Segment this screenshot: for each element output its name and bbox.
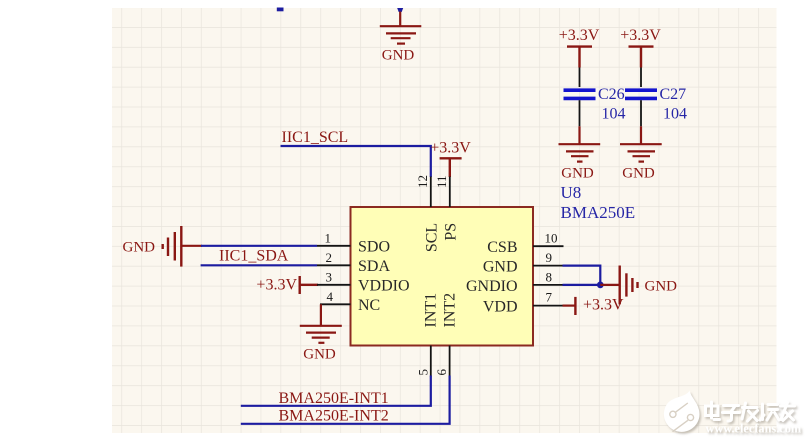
- svg-text:9: 9: [546, 250, 553, 265]
- svg-text:3: 3: [326, 270, 333, 285]
- op IC U8 body: [351, 207, 534, 346]
- ground GND (below C26): [559, 144, 601, 161]
- svg-text:C27: C27: [660, 86, 687, 103]
- wire pin9 to junction: [563, 266, 601, 285]
- watermark chinese text: [706, 402, 795, 421]
- svg-text:2: 2: [326, 250, 333, 265]
- svg-text:GND: GND: [645, 279, 678, 295]
- pin 4 (NC): [320, 303, 351, 305]
- svg-text:104: 104: [602, 106, 626, 123]
- svg-text:VDDIO: VDDIO: [358, 278, 410, 295]
- svg-text:GND: GND: [303, 347, 336, 363]
- svg-text:10: 10: [545, 231, 558, 246]
- svg-text:+3.3V: +3.3V: [430, 140, 471, 157]
- pin 7 (VDD): [533, 305, 564, 307]
- svg-text:+3.3V: +3.3V: [559, 27, 600, 44]
- svg-text:INT1: INT1: [423, 293, 440, 328]
- svg-text:BMA250E-INT2: BMA250E-INT2: [279, 408, 389, 425]
- schematic sheet background: [112, 8, 777, 433]
- svg-text:NC: NC: [358, 297, 380, 314]
- svg-text:7: 7: [546, 290, 553, 305]
- svg-text:CSB: CSB: [487, 239, 517, 256]
- pin 11 (PS): [449, 177, 451, 208]
- svg-text:GND: GND: [382, 48, 415, 64]
- svg-text:GND: GND: [561, 166, 594, 182]
- svg-text:SDA: SDA: [358, 258, 390, 275]
- svg-text:C26: C26: [598, 86, 625, 103]
- wire (blue stem into top GND): [397, 8, 403, 12]
- pin 6 (INT2): [449, 346, 451, 377]
- pin 10 (CSB): [533, 245, 564, 247]
- svg-text:IIC1_SDA: IIC1_SDA: [219, 248, 289, 265]
- pin 9 (GND): [533, 265, 564, 267]
- wire INT2: [241, 376, 450, 424]
- pin 12 (SCL): [430, 177, 432, 208]
- wire stub remnant top: [277, 8, 284, 12]
- capacitor C27: [640, 68, 642, 88]
- wire IIC1_SDA: [201, 264, 317, 266]
- svg-text:VDD: VDD: [483, 299, 518, 316]
- junction: [597, 282, 604, 289]
- wire: [578, 126, 580, 144]
- svg-text:U8: U8: [561, 183, 582, 202]
- wire junction to GND symbol: [600, 284, 619, 286]
- wire: [640, 126, 642, 144]
- svg-text:PS: PS: [443, 223, 460, 241]
- wire pin4 down: [320, 304, 322, 326]
- svg-text:1: 1: [325, 231, 332, 246]
- pin 2 (SDA): [317, 264, 351, 266]
- ground GND (top, above IC): [380, 12, 422, 44]
- pin 1 (SDO): [317, 245, 351, 247]
- svg-text:+3.3V: +3.3V: [256, 277, 297, 294]
- svg-text:www.elecfans.com: www.elecfans.com: [706, 422, 802, 436]
- svg-text:GND: GND: [483, 259, 518, 276]
- svg-text:GND: GND: [123, 240, 156, 256]
- wire pin7 to +3.3V: [563, 305, 575, 307]
- svg-text:SDO: SDO: [358, 239, 390, 256]
- ground GND (right, sideways): [620, 266, 638, 305]
- wire GND to pin1: [181, 245, 202, 247]
- svg-text:11: 11: [434, 175, 449, 188]
- svg-text:BMA250E-INT1: BMA250E-INT1: [279, 390, 389, 407]
- svg-text:IIC1_SCL: IIC1_SCL: [282, 129, 349, 146]
- pin 8 (GNDIO): [533, 284, 564, 286]
- ground GND (below pin 4): [300, 326, 342, 343]
- svg-text:INT2: INT2: [441, 293, 458, 328]
- svg-text:8: 8: [546, 270, 553, 285]
- wire INT1: [241, 376, 431, 406]
- svg-text:104: 104: [663, 106, 687, 123]
- wire pin8 to GND: [563, 284, 601, 286]
- svg-text:5: 5: [415, 369, 430, 376]
- svg-text:6: 6: [434, 369, 449, 376]
- ground GND (below C27): [620, 144, 662, 161]
- svg-text:12: 12: [415, 175, 430, 188]
- power +3.3V (pin 7): [574, 297, 576, 315]
- svg-text:GND: GND: [622, 166, 655, 182]
- wire IIC1_SCL to pin 12: [281, 146, 431, 177]
- svg-text:+3.3V: +3.3V: [583, 297, 624, 314]
- svg-text:4: 4: [327, 289, 334, 304]
- svg-text:BMA250E: BMA250E: [561, 203, 636, 222]
- capacitor C26: [579, 68, 581, 88]
- pin 5 (INT1): [430, 346, 432, 377]
- svg-text:SCL: SCL: [424, 223, 441, 252]
- pin 3 (VDDIO): [317, 284, 351, 286]
- watermark logo: [664, 391, 700, 432]
- svg-text:+3.3V: +3.3V: [620, 27, 661, 44]
- svg-text:GNDIO: GNDIO: [466, 278, 518, 295]
